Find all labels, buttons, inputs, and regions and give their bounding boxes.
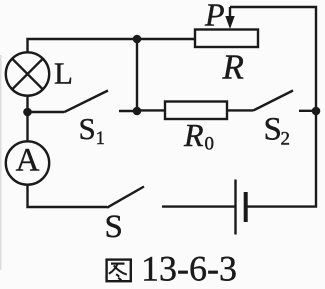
- junction node: S2 / right rail: [312, 107, 321, 116]
- svg-text:L: L: [54, 56, 73, 91]
- svg-text:S: S: [105, 209, 123, 245]
- junction node: lamp bottom / S1: [23, 108, 32, 117]
- wire: middle vertical from top junction: [136, 39, 138, 111]
- svg-text:0: 0: [205, 134, 215, 155]
- rheostat R body: [195, 30, 258, 48]
- wire: S contact to battery: [162, 205, 235, 207]
- switch S2 blade: [253, 91, 293, 111]
- wire: S1 pivot from lamp-bottom junction: [28, 111, 65, 113]
- ammeter A circle: [6, 141, 49, 184]
- junction node: middle branch / R0 rail: [133, 107, 142, 116]
- svg-text:S: S: [264, 112, 282, 148]
- slider arrow shaft: [229, 7, 231, 18]
- svg-text:1: 1: [96, 128, 106, 149]
- battery negative plate (short thick): [244, 192, 248, 222]
- svg-text:P: P: [204, 0, 225, 33]
- svg-text:A: A: [16, 143, 40, 179]
- switch S blade: [107, 187, 144, 208]
- switch S1 blade: [64, 91, 108, 113]
- wire: junction to R0 left: [137, 109, 165, 111]
- svg-text:R: R: [183, 117, 204, 153]
- wire: ammeter bottom to bottom rail: [28, 184, 108, 207]
- wire: battery to right rail, right rail up, top to arrow P: [230, 7, 316, 207]
- wire: R0 right to S2 pivot: [227, 109, 253, 111]
- wire: left rail lamp bottom to ammeter top: [26, 95, 28, 142]
- battery positive plate (long): [234, 180, 236, 235]
- switch S1 contact stub: [119, 110, 137, 112]
- svg-text:2: 2: [281, 129, 291, 150]
- svg-text:S: S: [79, 111, 96, 146]
- junction node: top rail / middle branch: [133, 35, 142, 44]
- lamp L circle: [6, 52, 49, 95]
- slider arrow head: [225, 16, 234, 29]
- svg-text:13-6-3: 13-6-3: [141, 249, 237, 289]
- resistor R0 body: [165, 102, 227, 120]
- wire: lamp top to top rail: [28, 39, 196, 53]
- svg-text:R: R: [222, 48, 244, 87]
- lamp cross: [12, 59, 43, 90]
- scan edge artifact: [0, 55, 2, 270]
- switch S2 contact stub: [299, 110, 316, 112]
- caption: character 图 drawn as strokes: [107, 260, 131, 282]
